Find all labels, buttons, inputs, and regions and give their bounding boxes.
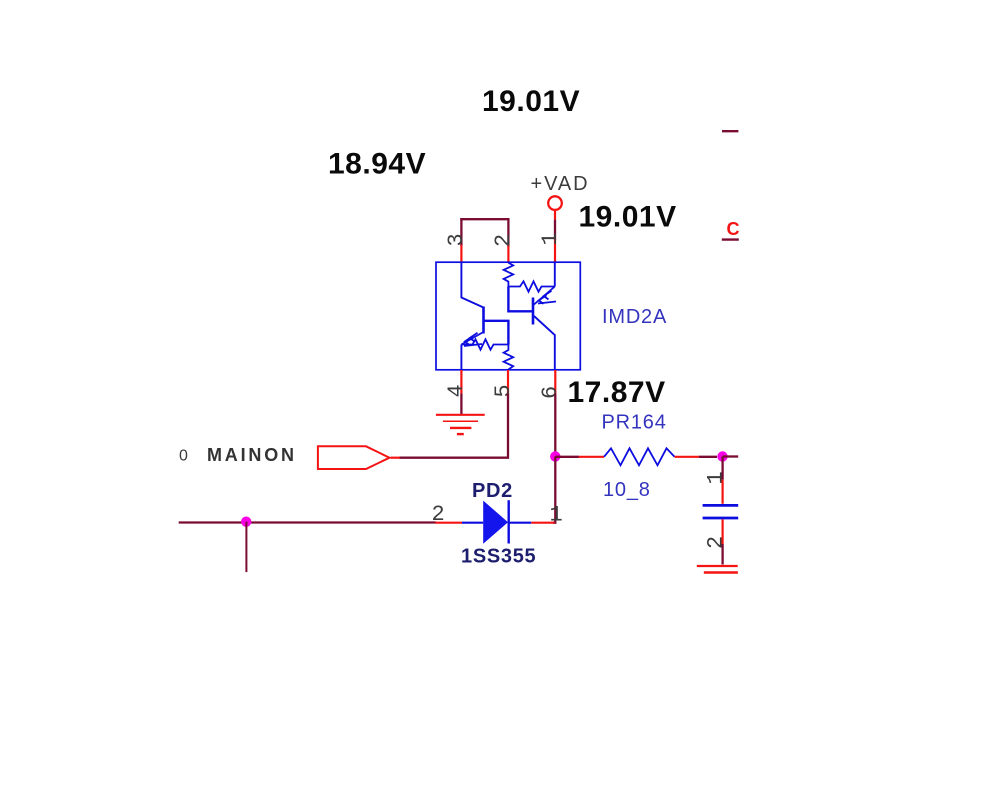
Q2 pin4 internal lead: [460, 345, 462, 371]
svg-text:1: 1: [704, 471, 729, 484]
pin 2 stub (red): [507, 246, 509, 263]
wire +VAD net vertical: [554, 220, 556, 240]
svg-text:2: 2: [491, 234, 516, 247]
wire junction2 to right edge: [723, 455, 739, 457]
svg-text:10_8: 10_8: [603, 479, 651, 501]
svg-text:1: 1: [538, 232, 563, 245]
power port +VAD circle: [548, 196, 562, 210]
Q2 base wire: [484, 321, 509, 345]
capacitor top plate: [703, 504, 739, 507]
op body U IMD2A box: [436, 262, 580, 370]
svg-text:IMD2A: IMD2A: [602, 306, 667, 328]
svg-text:4: 4: [444, 384, 469, 397]
wire junction down to diode: [553, 457, 555, 523]
wire top-left U horizontal: [460, 218, 509, 220]
wire pin2 net vertical: [507, 218, 509, 247]
wire stub down from left junction: [245, 522, 247, 572]
wire capacitor to ground 2: [721, 544, 723, 565]
junction node at pin6/resistor: [550, 451, 560, 461]
svg-text:MAINON: MAINON: [207, 445, 297, 465]
diode PD2 cathode bar: [508, 500, 510, 543]
diode PD2 pin 1 stub (red): [531, 522, 554, 524]
Q1 emitter with arrows: [534, 287, 556, 305]
junction node on left wire: [241, 517, 251, 527]
diode PD2 cathode lead (blue): [509, 522, 532, 524]
pin 6 stub (red): [554, 370, 556, 394]
diode PD2 triangle: [483, 501, 508, 544]
Q1 base bar: [532, 298, 535, 325]
junction node at capacitor: [717, 451, 727, 461]
wire junction to resistor (maroon): [555, 456, 579, 458]
Q2 base-emitter resistor R2 (horizontal zigzag): [461, 339, 508, 349]
pin 5 stub (red): [507, 370, 509, 394]
capacitor pin 1 stub (red): [721, 480, 723, 504]
wire pin3 net vertical: [460, 218, 462, 246]
off-page port MAINON (red pentagon): [318, 446, 390, 469]
wire red stub at MAINON tip: [391, 457, 401, 459]
pin 3 stub (red): [460, 245, 462, 263]
wire junction2 down to capacitor: [721, 457, 723, 480]
wire left diode net horizontal: [179, 521, 436, 523]
Q2 base bar: [482, 307, 485, 334]
svg-text:17.87V: 17.87V: [568, 376, 666, 409]
svg-text:2: 2: [704, 536, 729, 549]
svg-text:18.94V: 18.94V: [328, 148, 426, 181]
svg-text:PD2: PD2: [472, 480, 513, 502]
svg-text:19.01V: 19.01V: [579, 201, 677, 234]
svg-text:1SS355: 1SS355: [461, 545, 536, 567]
fragment maroon underline: [722, 238, 739, 240]
diode PD2 pin 2 stub (red): [435, 522, 462, 524]
Q1 collector: [534, 316, 555, 370]
resistor PR164 left pin stub (red): [579, 456, 604, 458]
svg-text:2: 2: [432, 502, 445, 527]
wire resistor to junction 2 (maroon): [699, 456, 717, 458]
Q1 base resistor R1 (vertical zigzag from pin2): [504, 263, 514, 287]
pin stub of +VAD port: [554, 210, 556, 220]
ground symbol under pin 4: [436, 415, 485, 434]
svg-text:5: 5: [491, 384, 516, 397]
fragment wire top right: [722, 130, 738, 132]
Q2 base resistor R1 (vertical zigzag to pin5): [504, 345, 514, 370]
pin 4 stub (red): [460, 370, 462, 394]
svg-text:6: 6: [538, 386, 563, 399]
capacitor pin 2 stub (red): [721, 519, 723, 544]
svg-text:0: 0: [179, 447, 188, 464]
svg-text:3: 3: [444, 233, 469, 246]
Q2 pin3 internal lead / collector: [461, 263, 483, 308]
svg-text:C: C: [727, 219, 740, 239]
Q1 base wire: [508, 287, 533, 312]
Q2 emitter with arrows: [461, 333, 482, 347]
svg-text:PR164: PR164: [602, 412, 667, 434]
diode PD2 anode lead (blue): [462, 522, 483, 524]
wire pin4 to ground: [460, 394, 462, 415]
svg-text:19.01V: 19.01V: [482, 85, 580, 118]
Q1 base-emitter resistor R2 (horizontal zigzag): [508, 281, 554, 291]
pin 1 stub (red): [554, 239, 556, 263]
wire pin5 net down and left to MAINON: [399, 394, 508, 458]
Q1 pin1 internal lead: [554, 263, 556, 287]
resistor PR164 right pin stub (red): [675, 456, 700, 458]
ground symbol under capacitor (clipped): [697, 566, 738, 573]
svg-text:+VAD: +VAD: [531, 173, 590, 195]
svg-text:1: 1: [550, 502, 563, 527]
capacitor bottom plate: [703, 517, 739, 520]
wire pin6 net down to junction: [554, 394, 556, 457]
resistor PR164 zigzag: [604, 448, 675, 465]
